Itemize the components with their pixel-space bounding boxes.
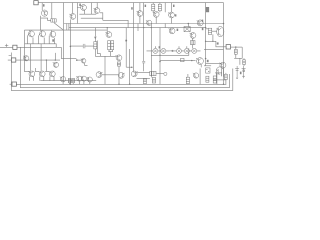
transistor Qc	[81, 59, 86, 64]
wire diagonal R1 to bus	[54, 23, 63, 30]
pin V- terminal square	[12, 82, 16, 86]
transistor Q9	[216, 67, 223, 77]
wire Q20 emitter down	[200, 64, 202, 67]
wire y74.8 link	[102, 74, 118, 76]
wire x239.9 drop	[239, 58, 241, 64]
wire x213 drop	[212, 34, 214, 41]
wire y65.8 link	[204, 65, 211, 67]
diode D1	[184, 27, 190, 32]
transistor Q5	[153, 12, 159, 18]
node junction x77 y60	[76, 59, 78, 61]
wire R17 leads	[235, 47, 237, 58]
pin IN+ terminal square	[13, 45, 17, 49]
wire short vertical x68.9	[68, 24, 70, 31]
node pin number 7 label	[202, 27, 204, 30]
wire OUT lead right	[231, 46, 243, 48]
transistor row Q group: QA	[153, 48, 158, 53]
node label Q4	[131, 7, 133, 9]
wire R5 leads	[206, 29, 217, 31]
transistor Q10	[206, 68, 210, 73]
wire R9 right lead	[156, 73, 164, 75]
wire main bus y27.6	[69, 27, 206, 29]
node junction rail x223	[223, 84, 224, 85]
wire rail drop x171	[170, 3, 172, 13]
node junction y41.3 x213	[212, 41, 213, 42]
transistor row QB	[161, 48, 166, 53]
resistor Rb3	[225, 74, 228, 79]
node label near x52 y40	[52, 39, 54, 41]
wire C2 bottom lead	[143, 63, 145, 71]
node terminal circle	[164, 72, 167, 75]
capacitor C1	[83, 44, 85, 48]
transistor Q14	[190, 33, 196, 39]
wire x35.3 drop	[34, 68, 36, 71]
resistor Rb2	[213, 76, 216, 83]
node label near T2	[240, 72, 242, 75]
node junction bus27 x151.3	[151, 27, 152, 28]
transistor Q15	[28, 30, 35, 37]
transistor Q12	[105, 32, 111, 38]
transistor Q18	[116, 55, 122, 61]
node junction IN- x55	[55, 59, 56, 60]
node junction bus27 x143.7	[143, 27, 144, 28]
wire IN- lead	[8, 59, 60, 61]
node junction bus x188	[188, 23, 190, 25]
wire rail drop x77	[76, 3, 78, 24]
node label Q1	[43, 4, 45, 6]
wire x200 vertical	[199, 69, 201, 85]
wire bus y14	[79, 13, 96, 15]
wire y72.9 link	[215, 72, 222, 74]
node junction rail x119	[118, 84, 119, 85]
wire Qc emitter	[85, 63, 88, 65]
wire bottom bus y80.7	[40, 80, 96, 82]
wire Q12 top lead	[106, 28, 108, 33]
wire center vertical x126	[125, 28, 127, 68]
node label near out	[217, 42, 219, 44]
terminal T1	[235, 66, 239, 79]
resistor R8	[111, 41, 114, 50]
node label near x207 y60	[207, 60, 209, 62]
wire row links	[147, 50, 201, 52]
resistor R17	[234, 49, 237, 54]
resistor R2	[152, 4, 155, 11]
resistor R18	[243, 60, 246, 65]
transistor Q8	[219, 62, 226, 68]
resistor R5	[208, 28, 211, 34]
resistor R10	[68, 78, 71, 82]
transistor Q2	[80, 5, 87, 11]
node junction y41.3 x206	[205, 41, 206, 42]
node junction x206 y27.6	[205, 27, 206, 28]
wire x160 long	[159, 28, 161, 85]
wire bus y18	[81, 17, 103, 19]
node junction rail x129	[129, 84, 130, 85]
wire bottom row bus y71.4	[29, 70, 49, 72]
resistor R12	[143, 78, 146, 83]
wire rail drop Q3a	[72, 3, 74, 14]
wire y72.6 link	[137, 72, 150, 74]
node junction x70 y46	[70, 46, 72, 48]
transistor row QE	[184, 48, 189, 53]
transistor Q10c mirror	[146, 20, 152, 25]
node label Q2	[79, 4, 81, 6]
capacitor C2	[142, 61, 145, 63]
wire bus y56.3	[95, 55, 116, 57]
node label Q13	[177, 29, 179, 31]
transistor Q3	[94, 8, 100, 14]
wire IN+ branch down	[60, 47, 62, 58]
wire y58.3 link	[234, 57, 242, 59]
wire R14 stub	[187, 74, 189, 84]
node junction x160 y61.5	[159, 61, 161, 63]
wire Rb3 lead	[225, 73, 227, 84]
transistor Q28	[81, 76, 87, 81]
wire x126 to x131 link	[126, 66, 132, 68]
wire y78.5 link	[137, 78, 150, 80]
wire V- rail	[16, 83, 226, 85]
transistor Q29	[87, 77, 93, 82]
transistor Qb input right	[53, 62, 59, 67]
resistor R1	[51, 19, 56, 22]
wire staircase center	[98, 41, 101, 57]
transistor Q4	[137, 11, 143, 17]
resistor R4	[206, 7, 209, 12]
wire y63.5 right link	[206, 63, 221, 65]
wire Q4 down	[139, 3, 141, 24]
node junction IN- x46	[46, 59, 47, 60]
wire link y20	[103, 20, 128, 27]
resistor R7	[108, 41, 111, 50]
wire R6 bottom lead	[94, 49, 96, 56]
wire y58.5 link	[61, 58, 76, 60]
wire long vertical x133.6	[133, 3, 135, 72]
transistor Q21	[96, 72, 102, 78]
wire bottom border frame	[11, 53, 233, 91]
wire IN+ lead	[0, 46, 61, 48]
wire long vertical left-mid	[63, 3, 65, 81]
transistor Q30	[193, 73, 199, 78]
node minus mark IN-	[9, 55, 12, 57]
wire x151.3 long	[150, 24, 152, 78]
resistor R3	[158, 4, 161, 11]
wire left inner vertical	[19, 47, 21, 88]
wire Q5 down	[155, 17, 157, 23]
wire bottom cluster drops	[63, 81, 90, 84]
wire drop Q23 top	[30, 44, 32, 71]
pin V+ terminal square	[34, 1, 38, 5]
node pin number 1 label	[202, 20, 203, 23]
wire Q1 collector down	[40, 16, 42, 30]
transistor Q7	[216, 26, 224, 36]
wire out bus y41.3	[206, 41, 227, 47]
resistor R15	[190, 41, 195, 45]
node label Q6	[173, 5, 175, 7]
wire x138 short	[137, 24, 139, 32]
wire row gap arrow	[169, 50, 173, 52]
pin IN- terminal square	[11, 58, 15, 62]
wire Q6 down	[171, 18, 173, 24]
wire x242 drop	[241, 47, 243, 58]
node label Q6b	[175, 14, 177, 16]
resistor R6	[94, 42, 97, 49]
wire IN- junction drops	[46, 53, 55, 72]
transistor Q23	[28, 71, 34, 77]
transistor Q17	[49, 31, 55, 38]
wire Q2 left lead	[77, 8, 84, 15]
wire long vertical x70	[69, 19, 71, 84]
wire top V+ rail	[38, 2, 223, 4]
resistor R16	[117, 62, 120, 66]
terminal T2	[242, 66, 246, 78]
node plus mark IN+	[5, 44, 8, 48]
wire C1 leads	[70, 45, 93, 47]
wire R3 stubs	[159, 3, 161, 13]
node junction y60.6 x191.8	[191, 60, 192, 61]
transistor row QD	[177, 48, 182, 53]
transistor Q3a	[69, 14, 76, 20]
wire row tick stubs	[155, 46, 186, 48]
node junction x160 y55.3	[159, 55, 160, 56]
transistor Q22	[118, 73, 124, 79]
wire center vertical x129.6	[129, 49, 131, 84]
wire main bus y23.5	[64, 23, 224, 25]
wire y49.7 link left	[204, 49, 224, 51]
wire link to Qc	[77, 59, 82, 61]
wire long vertical right x223.5	[223, 3, 225, 85]
wire rail drop Q1	[41, 3, 43, 10]
node junction out x235.8	[235, 46, 236, 47]
wire R15 leads	[192, 38, 194, 48]
wire arrow on R6 feed	[94, 37, 96, 39]
wire rail drop x165	[164, 3, 166, 28]
wire long vertical x143.7 top	[143, 3, 145, 61]
wire bus y60.3 right	[160, 60, 196, 62]
wire V- pin stub	[10, 83, 12, 85]
wire rail drop R1	[51, 3, 53, 19]
transistor Q1	[41, 10, 47, 16]
wire inner bottom line	[20, 74, 229, 88]
wire rail drop R4 top	[205, 3, 207, 14]
wire Q1 base link	[41, 18, 51, 20]
wire bottom row emitter drops	[30, 76, 55, 80]
node junction x126 y41	[125, 40, 127, 42]
transistor Q25	[49, 71, 55, 77]
wire R7 R8 bottoms	[109, 50, 112, 57]
wire x206 vertical	[205, 14, 207, 66]
transistor Q11	[197, 20, 204, 26]
wire rail drop Q3	[96, 3, 98, 8]
pin OUT terminal square	[226, 45, 230, 49]
transistor Q16	[39, 30, 46, 37]
resistor Rb1	[206, 76, 209, 82]
transistor Q26	[60, 77, 66, 82]
node junction bus x107	[107, 27, 108, 28]
resistor R11	[72, 78, 75, 82]
transistor row QF	[192, 48, 197, 53]
transistor Q6	[168, 12, 174, 18]
node label Q5	[145, 5, 147, 7]
wire center vertical x105	[104, 56, 106, 84]
node label row chain	[159, 46, 161, 48]
resistor R9	[150, 71, 156, 75]
node junction x206 y58.5	[205, 58, 207, 60]
transistor Qa input left	[23, 56, 29, 61]
wire Q3 base route	[100, 13, 103, 20]
node junction rail x70	[70, 84, 71, 85]
node junction x131 y67	[131, 66, 133, 68]
node junction R8 bottom	[112, 51, 113, 52]
transistor Q19	[131, 71, 137, 77]
transistor Q13	[169, 28, 175, 34]
wire left long vertical x24	[24, 30, 29, 71]
wire bus y55.3	[151, 48, 189, 55]
wire short vertical x66.8	[66, 24, 68, 31]
node junction R7 bottom	[108, 51, 109, 52]
resistor R13	[152, 77, 155, 83]
wire Q18 emitter to rail	[118, 66, 120, 84]
wire R6 top lead	[94, 28, 96, 42]
wire bus y43.8	[25, 44, 56, 48]
transistor Q27	[76, 76, 82, 81]
wire bus y30	[24, 29, 107, 31]
wire emitter drops row1	[28, 35, 55, 43]
wire right cluster verticals	[217, 68, 222, 84]
wire drop Q24 top	[40, 44, 42, 71]
transistor Q24	[39, 71, 45, 77]
node junction x223 y23.5	[223, 23, 225, 25]
wire rail drop x91	[90, 3, 92, 15]
node label box on base line	[181, 58, 184, 61]
wire D1 stub	[187, 24, 189, 27]
wire R2 stubs	[152, 3, 154, 13]
wire y79.9 link	[213, 79, 226, 81]
wire R18 leads	[243, 58, 245, 66]
resistor R14	[186, 77, 189, 83]
transistor Q20 output driver	[196, 58, 203, 65]
